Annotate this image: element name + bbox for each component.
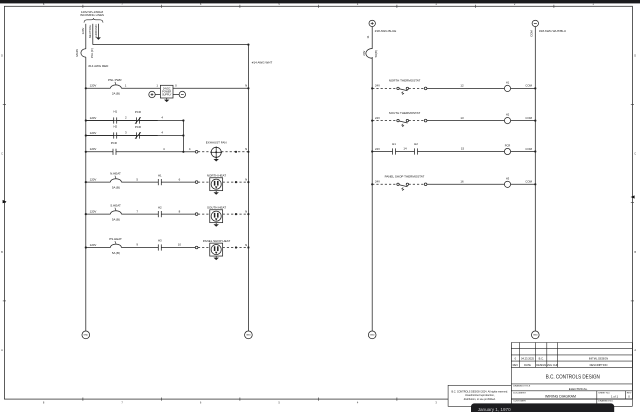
svg-text:B.C.: B.C. [539,357,544,361]
svg-text:WIRING DIAGRAM: WIRING DIAGRAM [545,394,576,398]
svg-text:GND: GND [83,335,88,337]
svg-text:MAIN: MAIN [75,49,79,57]
svg-text:5A (B): 5A (B) [112,218,120,222]
svg-text:COM: COM [525,84,532,88]
svg-text:REV: REV [513,363,519,367]
svg-text:C: C [1,152,3,156]
svg-text:DRAWING TITLE: DRAWING TITLE [513,385,531,388]
svg-text:distribution, or use prohibite: distribution, or use prohibited. [464,398,496,401]
svg-text:B: B [634,250,636,254]
svg-text:SUPPLY: SUPPLY [162,93,172,96]
svg-text:GND: GND [533,335,538,337]
svg-text:120V: 120V [90,210,97,214]
svg-text:#18 AWG BLUE: #18 AWG BLUE [375,29,396,33]
svg-text:120V: 120V [81,28,85,35]
svg-text:5A(B): 5A(B) [374,50,378,57]
svg-text:SOUTH HEAT: SOUTH HEAT [207,206,226,210]
svg-text:INITIAL DESIGN: INITIAL DESIGN [589,357,608,361]
svg-text:N.HEAT: N.HEAT [110,172,121,176]
svg-text:H1: H1 [113,110,117,114]
svg-text:B: B [1,250,3,254]
svg-text:NORTH HEAT: NORTH HEAT [207,174,226,178]
svg-text:PANEL SHOP HEAT: PANEL SHOP HEAT [203,239,231,243]
svg-text:11: 11 [366,35,370,38]
svg-text:13: 13 [460,116,464,120]
svg-text:120V: 120V [90,243,97,247]
svg-text:16: 16 [460,180,464,184]
svg-text:10: 10 [178,243,182,247]
svg-text:PS.HEAT: PS.HEAT [109,237,122,241]
svg-text:PCR: PCR [505,144,511,148]
svg-text:DRAWING NO.: DRAWING NO. [598,400,613,403]
svg-text:COM: COM [525,116,532,120]
svg-text:COM: COM [525,180,532,184]
svg-text:DATE: DATE [524,363,531,367]
svg-text:24V: 24V [375,116,380,120]
svg-text:H1: H1 [392,142,396,146]
svg-text:SHEET NO.: SHEET NO. [598,393,610,395]
svg-text:January 1, 1970: January 1, 1970 [478,407,511,412]
svg-text:ENG CHK: ENG CHK [546,363,558,367]
svg-text:04.23.2025: 04.23.2025 [521,357,535,361]
svg-text:C: C [634,152,636,156]
svg-text:COM: COM [525,147,532,151]
svg-text:NORTH THERMOSTAT: NORTH THERMOSTAT [389,79,421,83]
svg-text:#18 AWG WHT/BLU: #18 AWG WHT/BLU [539,29,566,33]
svg-text:PANEL SHOP THERMOSTAT: PANEL SHOP THERMOSTAT [385,175,425,179]
svg-text:H3: H3 [158,239,162,243]
svg-text:15A (C): 15A (C) [90,48,94,58]
svg-text:ELECTRICAL: ELECTRICAL [569,387,588,391]
svg-text:B.C. CONTROLS DESIGN 2024. All: B.C. CONTROLS DESIGN 2024. All rights re… [451,390,508,393]
svg-text:N: N [245,243,247,247]
svg-text:GROUND: GROUND [94,25,98,38]
svg-text:DOCUMENT: DOCUMENT [513,393,526,395]
svg-text:CUSTOMER: CUSTOMER [513,401,526,403]
svg-text:DESIGN: DESIGN [536,363,546,367]
svg-text:INCOMING LINES: INCOMING LINES [80,13,104,17]
svg-text:S.HEAT: S.HEAT [110,204,121,208]
svg-text:SOUTH THERMOSTAT: SOUTH THERMOSTAT [389,111,421,115]
svg-text:24V: 24V [362,51,366,56]
svg-text:H2: H2 [506,113,510,117]
svg-text:#14 AWG RED: #14 AWG RED [88,64,109,68]
svg-text:120V: 120V [90,178,97,182]
svg-text:5A (B): 5A (B) [112,186,120,190]
svg-text:120V: 120V [90,116,97,120]
svg-text:H3: H3 [506,176,510,180]
svg-text:PCR: PCR [135,125,141,129]
svg-text:DESCRIPTION: DESCRIPTION [590,363,608,367]
svg-text:120V: 120V [90,84,97,88]
svg-text:N: N [245,210,247,214]
svg-text:H1: H1 [158,173,162,177]
svg-text:120V: 120V [90,147,97,151]
svg-text:GND: GND [370,335,375,337]
svg-text:D: D [1,53,3,57]
svg-text:H1: H1 [506,81,510,85]
svg-text:120V: 120V [90,131,97,135]
svg-text:PCR: PCR [135,110,141,114]
svg-text:24V: 24V [375,147,380,151]
svg-text:COM: COM [529,30,533,37]
svg-text:B.C. CONTROLS DESIGN: B.C. CONTROLS DESIGN [546,375,600,381]
svg-text:2A (B): 2A (B) [112,92,120,96]
svg-text:12: 12 [460,84,464,88]
svg-text:N: N [245,84,247,88]
svg-text:A: A [1,348,3,352]
svg-text:EXHAUST FAN: EXHAUST FAN [206,140,227,144]
svg-text:N: N [245,178,247,182]
svg-text:N: N [245,147,247,151]
svg-text:15: 15 [461,147,465,151]
svg-text:Unauthorized reproduction,: Unauthorized reproduction, [465,394,495,397]
svg-text:A: A [634,348,636,352]
svg-text:H2: H2 [113,125,117,129]
svg-text:24V: 24V [375,84,380,88]
svg-text:H2: H2 [414,142,418,146]
svg-text:NEUTRAL: NEUTRAL [88,24,92,38]
svg-text:PCR: PCR [111,141,117,145]
svg-text:24V: 24V [375,180,380,184]
svg-text:#14 AWG WHT: #14 AWG WHT [252,61,273,65]
svg-text:GND: GND [246,335,251,337]
svg-text:D: D [634,53,636,57]
svg-text:5A (B): 5A (B) [112,251,120,255]
svg-text:PNL PWR: PNL PWR [108,78,122,82]
svg-text:14: 14 [403,147,407,151]
svg-text:1 of 1: 1 of 1 [611,395,618,399]
svg-text:H2: H2 [158,205,162,209]
